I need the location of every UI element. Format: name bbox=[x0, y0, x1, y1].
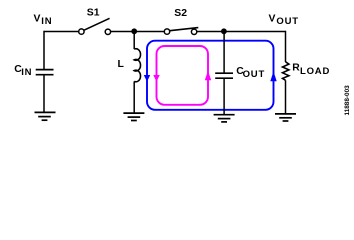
svg-text:11888-003: 11888-003 bbox=[344, 85, 351, 116]
svg-text:V: V bbox=[269, 13, 276, 24]
switch S1 bbox=[79, 18, 111, 34]
resistor RLOAD bbox=[283, 62, 289, 81]
wire CIN to ground bbox=[43, 75, 45, 113]
wire S1 to node bbox=[111, 31, 165, 33]
svg-text:IN: IN bbox=[21, 67, 32, 78]
svg-text:S1: S1 bbox=[87, 8, 100, 19]
svg-text:V: V bbox=[34, 14, 41, 25]
wire VOUT vertical to resistor bbox=[285, 31, 287, 62]
switch S2 bbox=[164, 28, 198, 35]
svg-text:L: L bbox=[118, 59, 125, 70]
label CIN bbox=[14, 64, 32, 78]
inductor L bbox=[134, 31, 140, 113]
wire COUT branch upper bbox=[223, 31, 225, 73]
svg-text:OUT: OUT bbox=[243, 69, 265, 80]
node at COUT junction bbox=[221, 28, 227, 34]
ground (L) bbox=[123, 113, 144, 120]
svg-text:OUT: OUT bbox=[276, 16, 298, 27]
capacitor CIN bbox=[36, 70, 54, 75]
wire RLOAD to ground bbox=[285, 80, 287, 114]
wire left vertical bbox=[43, 31, 45, 70]
capacitor COUT bbox=[215, 73, 233, 78]
svg-text:IN: IN bbox=[41, 16, 52, 27]
ground (COUT) bbox=[214, 115, 235, 122]
svg-text:LOAD: LOAD bbox=[300, 66, 330, 77]
wire top-left horizontal bbox=[44, 31, 79, 33]
svg-text:R: R bbox=[292, 63, 300, 74]
wire COUT to ground bbox=[223, 78, 225, 115]
label VOUT bbox=[269, 13, 299, 26]
ground (CIN) bbox=[35, 112, 56, 120]
blue current loop bbox=[144, 41, 277, 110]
wire S2 to VOUT corner bbox=[197, 31, 286, 33]
label VIN bbox=[34, 14, 53, 27]
svg-text:S2: S2 bbox=[174, 8, 187, 19]
label RLOAD bbox=[292, 63, 330, 77]
magenta current loop bbox=[153, 46, 211, 105]
ground (RLOAD) bbox=[275, 114, 296, 121]
label COUT bbox=[236, 66, 265, 80]
node at inductor junction bbox=[131, 28, 137, 34]
